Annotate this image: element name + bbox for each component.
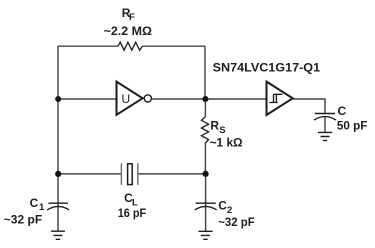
schmitt trigger hysteresis symbol: [269, 94, 282, 102]
capacitor C1 top plate: [48, 202, 68, 204]
wire bottom right of crystal: [138, 173, 206, 175]
wire inverter output to buffer input: [152, 98, 267, 100]
crystal CL body rectangle: [128, 164, 133, 185]
wire RS vertical: [204, 99, 206, 174]
svg-text:SN74LVC1G17-Q1: SN74LVC1G17-Q1: [213, 61, 321, 75]
node D junction dot bottom right: [203, 171, 209, 177]
ground under C1: [51, 231, 65, 239]
capacitor C2 curved plate: [195, 206, 217, 210]
svg-text:C: C: [218, 198, 227, 212]
svg-text:50 pF: 50 pF: [337, 118, 368, 132]
svg-text:S: S: [219, 125, 225, 136]
op-amp U1 inverter triangle: [117, 82, 143, 115]
svg-text:C: C: [338, 104, 347, 118]
inverter output bubble: [144, 95, 151, 102]
buffer U2 triangle (SN74LVC1G17-Q1): [267, 82, 293, 115]
svg-text:C: C: [30, 196, 39, 210]
wire C1 vertical: [57, 174, 59, 231]
svg-text:~32 pF: ~32 pF: [218, 215, 255, 229]
svg-text:F: F: [129, 12, 135, 23]
svg-text:U: U: [121, 92, 130, 106]
wire down to capacitor C: [324, 98, 326, 132]
wire buffer output: [293, 98, 325, 100]
wire top-left vertical (left rail x=58): [57, 46, 59, 174]
crystal CL left plate: [120, 163, 122, 185]
wire bottom left of crystal: [58, 173, 121, 175]
crystal CL right plate: [137, 163, 139, 185]
svg-text:~1 kΩ: ~1 kΩ: [210, 136, 243, 150]
capacitor C2 top plate: [196, 202, 216, 204]
svg-text:R: R: [210, 118, 219, 132]
wire C2 vertical: [205, 174, 207, 231]
node C junction dot bottom left: [55, 171, 61, 177]
wire inverter input: [58, 98, 117, 100]
capacitor C curved plate: [314, 117, 336, 121]
wire top horizontal right of RF: [142, 45, 205, 47]
svg-text:16 pF: 16 pF: [118, 206, 147, 220]
wire top horizontal left of RF: [58, 45, 118, 47]
svg-text:~2.2 MΩ: ~2.2 MΩ: [104, 24, 153, 38]
resistor RF: [118, 42, 142, 50]
capacitor C top plate: [315, 113, 335, 115]
node A junction dot inverter input: [55, 96, 61, 102]
ground under C2: [198, 231, 212, 239]
wire top-right vertical down to node: [204, 46, 206, 99]
resistor RS: [201, 117, 208, 143]
ground under C: [318, 132, 332, 140]
svg-text:1: 1: [39, 202, 45, 213]
capacitor C1 curved plate: [47, 206, 69, 210]
svg-text:~32 pF: ~32 pF: [4, 212, 42, 226]
node B junction dot inverter output / RF / RS: [202, 96, 208, 102]
